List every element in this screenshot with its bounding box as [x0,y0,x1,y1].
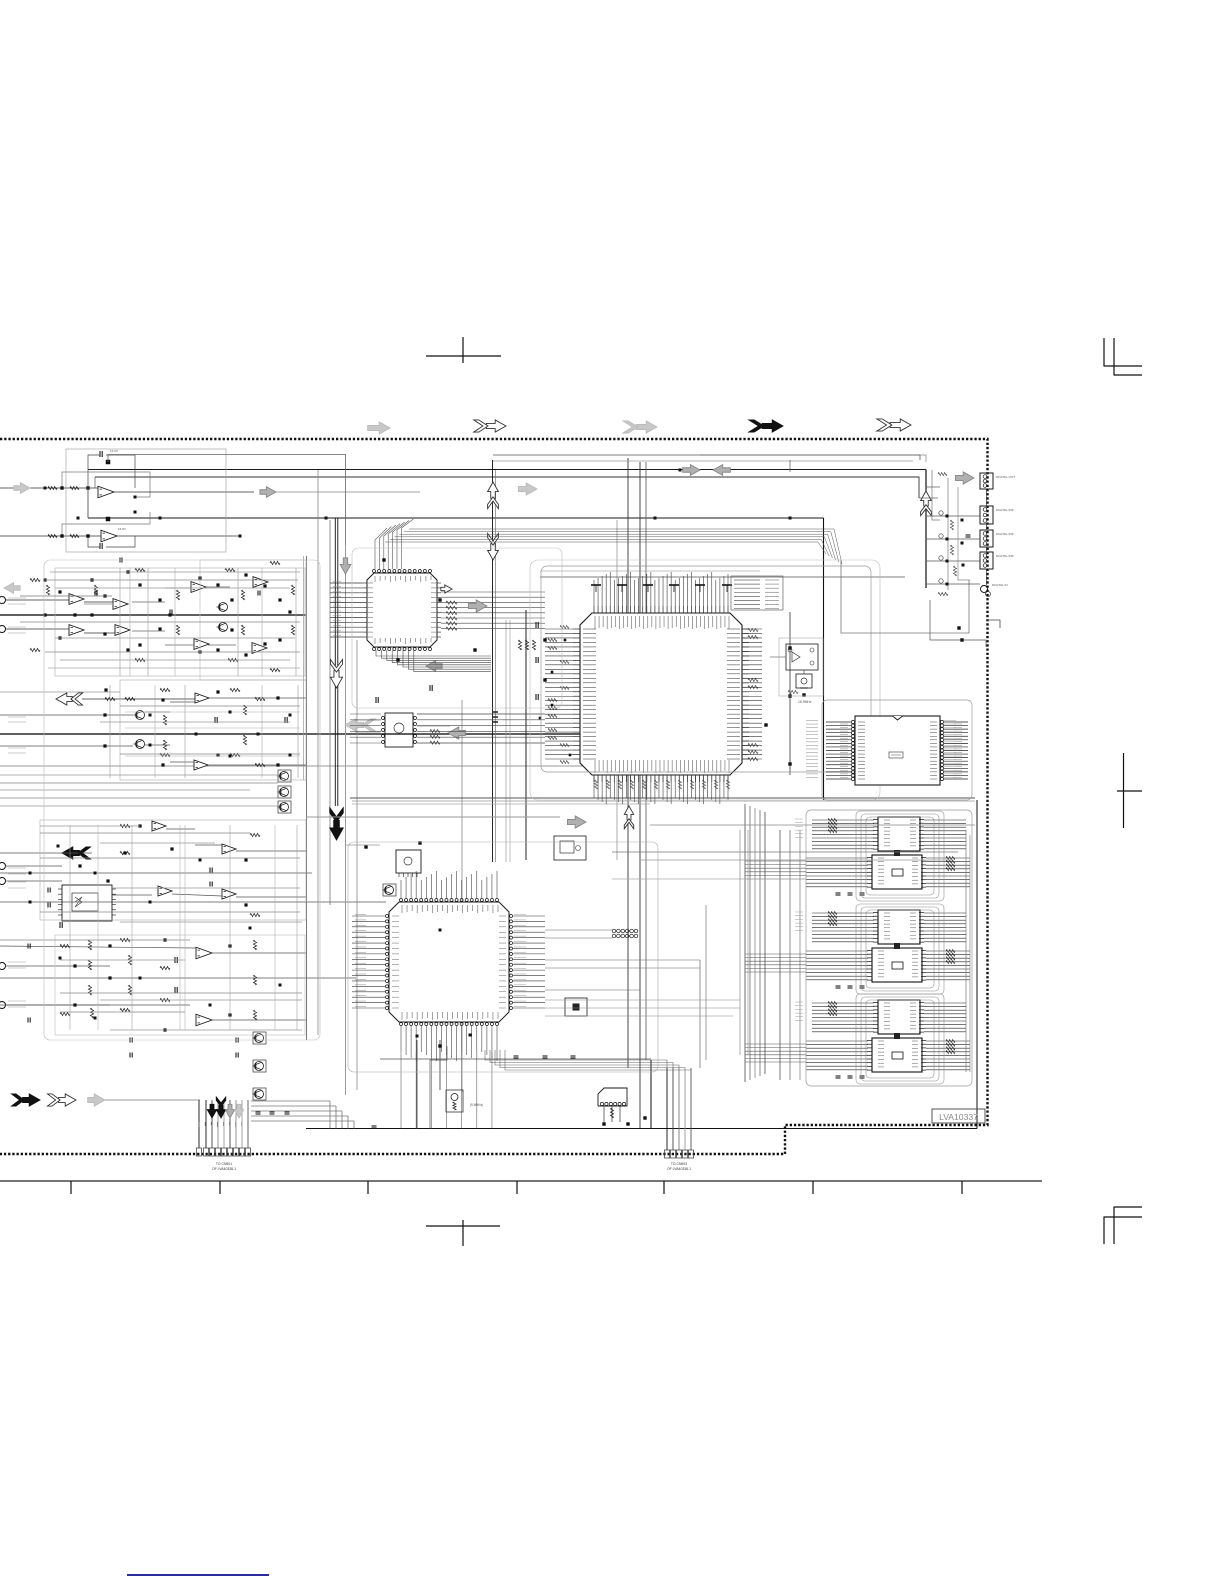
wire bus y798 lower [350,798,975,804]
label 16.9MHz [798,700,812,704]
frame block C [120,680,306,780]
label CN901 [212,1162,236,1171]
wires QFP1 right fan to main IC [441,592,545,628]
frame main IC section [541,566,871,772]
arrow white small E [441,585,452,593]
wire vertical x977 [976,800,978,1129]
op-amp IC202 [69,625,84,636]
frame block A [66,449,226,552]
jack J505 DIGITAL IN [981,586,991,597]
net label dashes [333,582,956,1021]
wires main QFP right fan [742,629,762,759]
resistors main QFP right [748,628,758,760]
IC main QFP right pin row [727,629,749,759]
junctions U903 [602,1116,646,1125]
wire long feedback y518 [88,517,824,519]
wires PLL left fan [826,722,851,779]
frame block D2 [55,935,305,1035]
wire bus QFP1 to mainIC top [385,529,842,564]
arrow outline left E4 [345,719,375,731]
wire vertical x926 digital section [925,470,927,589]
transistor Q302 [134,740,145,749]
wire bus y470 to digital-out [88,469,926,471]
op-amp IC302 [194,760,208,770]
svg-text:OF LVA40338-1: OF LVA40338-1 [212,1167,236,1171]
wires block B [20,587,236,645]
svg-text:15.8V: 15.8V [118,527,126,531]
wire bus y817 gray [306,816,560,818]
svg-text:16.9MHz: 16.9MHz [798,700,812,704]
frame left analog outer [44,560,320,1040]
wire loops DIP A [856,811,944,901]
frame QFP2 outer [348,842,658,1072]
signal arrow A5 (white double) [877,419,911,431]
wire top bus right corner [493,455,920,461]
wire mesh block C [0,685,300,806]
component U706 [565,998,587,1016]
label DIGITAL INP3 [996,554,1014,558]
crystal X401 [446,1090,483,1112]
label CN903 [667,1162,691,1171]
connector CN501 DIGITAL OUT [980,473,993,489]
wire vertical x640 [639,462,641,1129]
signal arrow A3 (gray double) [623,421,657,433]
wire blockA to y518 [87,488,89,518]
resistor R104 [70,534,79,537]
vertical pair x700 down [700,905,706,1068]
op-amp IC403 [158,886,172,896]
arrow gray left E3 [448,727,465,739]
fold ruler with ticks [0,1181,1042,1194]
arrow white bottom trio 2 [48,1094,77,1106]
svg-text:DIGITAL OUT: DIGITAL OUT [996,475,1015,479]
wire input pair block A [0,488,101,536]
wire vertical right bus1 [779,830,781,1080]
IC main QFP top pin row [594,606,729,629]
connector CN504 [980,552,993,569]
op-amp IC204 [115,625,130,636]
IC QFP2 right pins [499,915,513,1010]
input jack J401 [0,863,6,870]
resistors QFP1 right [446,601,536,650]
resistors block C [105,688,265,766]
arrow gray left on bus x713 [713,465,730,476]
wire loops DIP C [856,994,944,1084]
arrow gray on bus x674 [683,465,700,476]
wires crystal G [770,657,806,697]
op-amp IC206 [194,639,209,650]
wire vertical x330 [329,520,331,905]
frame DIP trio outer [806,810,972,1086]
wire vcc right x790 [789,612,791,775]
junction caps block D [73,824,247,1031]
IC QFP1 right pins [431,583,441,637]
trapezoid component U903 [598,1088,627,1106]
transistor pack Q305 [278,801,292,813]
arrow outline up I [921,491,932,516]
junction caps block C [103,688,279,766]
wire y497 segment [918,497,920,499]
arrow black bottom trio 1 [12,1094,41,1106]
blue underline bottom-left [127,1574,269,1576]
wires QFP1 bottom fan right [376,650,491,671]
transistor pack Q303 [278,770,292,782]
arrow gray to CN501 [955,472,974,484]
frame crystal G [779,638,823,696]
op-amp IC208 [252,643,267,654]
IC main QFP bottom pin row [594,760,729,782]
connector CN903 [664,1150,693,1158]
label DIGITAL IN [992,583,1008,587]
wire corner top-right bus [925,469,927,472]
wire down from CN501 [986,489,988,585]
IC PLL body [855,716,940,785]
tiny labels left edge [8,598,26,1007]
frame PLL [822,700,972,800]
cap QFP1 area [376,685,432,703]
label DIGITAL INP2 [996,532,1014,536]
transistor pack Q401 [253,1032,267,1044]
wires QFP2 bottom fan [401,1026,497,1129]
wire bus into connectors [700,455,926,462]
registration crosshair top [426,337,501,363]
cap trio below QFP2 [514,1056,576,1058]
labels PLL right [954,724,962,777]
wire long y615 analog [0,614,306,616]
transistor pack Q304 [278,786,292,798]
IC PLL right pins [930,720,944,780]
crystal circuit X301 [786,644,818,670]
pin numbers CN901 [199,1122,248,1127]
wire top rail main IC [540,571,905,577]
wire long y978 [0,977,356,979]
wires block C [0,698,306,765]
op-amp IC101a [98,486,114,498]
connector CN503 [980,530,993,547]
wires QFP2 right fan [513,916,545,1008]
wire vertical right bus3 [799,830,801,1080]
test points digital [939,511,949,586]
op-amp IC207 [253,577,268,588]
capacitor C102 [100,543,102,549]
IC QFP1 left pins [363,583,373,637]
IC group right C [806,1000,970,1078]
IC QFP1 bottom pins [373,638,432,651]
resistor row below main IC [594,780,729,789]
wire bus y852 [612,851,958,853]
input jack J202 [0,626,20,633]
op-amp IC404 [222,889,236,899]
wire vertical x823 down to PLL [823,518,825,800]
transistor Q301 [134,711,145,720]
arrow gray out-A2 [518,483,537,495]
input jack J201 [0,597,20,604]
registration crosshair bottom [426,1220,500,1246]
resistor R102 [70,486,79,489]
signal arrow A2 (white chevron) [474,420,506,432]
labels block A [110,449,126,531]
arrow gray left E2 [426,661,442,672]
arrow gray down CN901 d [234,1104,243,1118]
wires U903 [604,1106,620,1122]
wire out A2 [117,535,242,538]
wire hook right [986,620,1000,628]
registration crosshair mid-right [1117,753,1142,828]
resistors block B [30,561,295,671]
LVA10337 box [932,1109,985,1123]
svg-text:OF LVA40338-1: OF LVA40338-1 [667,1167,691,1171]
junctions QFP2 [364,841,471,1036]
op-amp IC401 [152,821,166,831]
op-amp IC301 [195,693,209,703]
wires main QFP bottom fan [594,775,728,804]
wire long y1129 [306,1128,977,1130]
input jack J402 [0,878,6,885]
IC QFP1 top pins [373,570,432,583]
transistor pack Q402 [253,1060,267,1072]
dotted page border [0,439,988,1154]
wires right of QFP2 horizontals [545,930,700,990]
wire horizontals group links [745,861,806,1062]
arrow white up x493 [488,482,499,509]
wires main QFP left fan [545,629,573,759]
wire vertical x646 [645,462,647,1060]
input jack J403 [0,963,6,970]
filter IC U401 [58,885,116,921]
frame main IC outer [530,560,880,800]
wires DIP8 bus [350,712,545,744]
arrow gray down CN901 c [225,1104,234,1118]
extra junctions block D [28,845,282,1058]
wire vertical x318 [317,470,319,1035]
caps on bus bottom [256,1112,377,1128]
wire bus y879 [612,878,806,880]
arrow black double down x336 [330,808,344,840]
caps block D [60,922,177,993]
wires block D [0,829,306,1020]
junction caps block B [43,570,291,656]
IC QFP2 bottom pins [400,1012,499,1026]
svg-text:DIGITAL IN: DIGITAL IN [992,583,1008,587]
wire bundle QFP2-to-right [545,1000,740,1016]
pin header QFP2 right [612,929,638,938]
IC PLL left pins [851,720,865,780]
arrow gray input-A [14,483,30,494]
label DIGITAL INP1 [996,508,1014,512]
resistor R101 [48,486,57,489]
wires digital section [919,470,980,590]
arrow black left D [62,847,91,859]
wire vertical x617 [616,520,618,860]
signal arrow A1 (light gray) [368,422,390,434]
op-amp IC201 [69,594,84,605]
wire vertical x345 gray bus [345,545,347,1095]
wire vertical x526 [525,610,527,860]
feedback loop A upper [62,455,150,497]
arrow gray input-B [4,583,20,594]
frame block B2 [200,560,306,680]
wires dual into right side [300,470,926,472]
junction dots main left [539,639,572,757]
svg-text:16.9V: 16.9V [110,449,118,453]
extra wires block C [125,711,300,758]
wire bundle CN903 [667,1068,691,1150]
IC group right B [806,910,970,988]
wire long y734 [0,733,651,735]
IC PLL centre label [889,752,903,758]
wire from blockA to x336 [87,487,89,518]
arrow gray out-A [260,487,276,498]
junction row below QFP2 [416,1035,442,1048]
IC group right A [806,817,970,895]
svg-text:TO CN901: TO CN901 [216,1162,232,1166]
arrow black down CN901 a [207,1104,216,1118]
frame block D1 [40,820,306,920]
IC QFP2 left pins [386,915,400,1010]
resistors digital [938,472,957,595]
connector CN502 [980,506,993,524]
cap block C [215,717,287,723]
wire mesh block B [20,568,300,676]
wires crystal x401 [417,1040,447,1129]
wire upper loop x790-925 [789,460,791,472]
caps digital [961,519,971,567]
resistors block D [60,824,260,1020]
label DIGITAL OUT [996,475,1015,479]
transistor Q201 [217,603,228,612]
junction squares block A [60,486,136,537]
wire long y902 [0,901,386,903]
crystal X301 body [796,674,812,688]
wires CN901 fan right [251,1101,354,1129]
wire bundle CN901 [199,1100,248,1148]
resistor R103 [48,534,57,537]
wire mesh block D [0,825,302,1030]
wire vertical x306 enclosure [304,556,307,1040]
registration mark top-right [1104,338,1142,376]
resistors main QFP left [548,625,569,763]
wire vertical x651 [650,1060,652,1129]
IC QFP1 body [367,573,437,647]
frame top mid [352,548,562,708]
wires QFP2 to CN903 [485,1050,691,1070]
wire bus y825 [650,824,975,826]
wires DIP8 [355,720,450,732]
junction squares right of main IC [764,646,791,765]
wires QFP2 top fan [401,871,497,898]
capacitor C101 [100,451,102,457]
wire out A1 [114,491,420,493]
op-amp IC203 [113,599,128,610]
svg-text:DIGITAL INP: DIGITAL INP [996,554,1014,558]
frame block B1 [55,568,305,676]
wire vertical x357 [356,640,358,1090]
IC main QFP body [580,613,742,775]
input jack J404 [0,1002,6,1009]
transistor pack Q403 [253,1088,267,1100]
caps block B [95,558,260,615]
diamond marks y488 [44,487,328,520]
wire vertical right bus2 [789,830,791,1080]
wire vertical x506 pair [506,620,510,862]
wire gray bus y1100 [105,1099,200,1101]
wire vertical x462 [461,700,463,1092]
feedback loop A lower [62,512,150,547]
wire rounded top-left of mainIC [336,517,338,519]
arrow black down CN901 b [216,1097,225,1118]
vertical x740 region [740,830,748,1055]
opto IC U302 DIP8 [382,713,417,747]
arrow white left C [56,693,83,705]
wire box edge right section [841,560,969,633]
wire long y873 [0,872,312,874]
decoupling caps top row [591,585,732,592]
arrow gray QFP2 [567,816,586,828]
wires PLL right fan [944,722,968,779]
wire bus mid y845 [346,844,381,846]
op-amp IC405 [196,947,212,959]
wire bottom digital [930,600,986,647]
wire blockA y470 link [94,477,96,488]
wires main QFP top bus [594,572,728,606]
op-amp IC406 [196,1014,212,1026]
junctions QFP1 [382,558,476,661]
wires QFP1 left fan [330,583,363,637]
arrow white double-down x336 [330,660,342,689]
wire vertical x628 [627,458,629,1068]
transistor Q701 [383,884,397,896]
svg-text:DIGITAL INP: DIGITAL INP [996,532,1014,536]
arrow gray E [468,600,487,612]
op-amp IC205 [191,582,206,593]
transistor Q202 [217,623,228,632]
op-amp IC101b [101,530,117,542]
junction sq y470 [654,469,792,520]
IC QFP2 top pins [400,899,499,914]
arrow white up QFP2 [624,806,633,829]
svg-text:DIGITAL INP: DIGITAL INP [996,508,1014,512]
svg-text:LVA10337: LVA10337 [939,1112,978,1122]
wire vertical bundle left of DIP trio [745,804,765,1082]
wire bus y477 [95,477,919,498]
arrow white down x493 [488,533,499,560]
arrow gray down x345 [340,558,351,574]
connector CN901 [196,1148,250,1156]
wires QFP1 top bus [375,519,413,569]
wire vertical right bus4 [966,830,970,1072]
wire rail y454 [108,455,346,546]
wire loops DIP B [856,904,944,994]
registration mark bottom-right [1104,1207,1142,1245]
wire long y766 [0,765,648,767]
wire vertical x336 bus [335,518,338,806]
op-amp IC402 [222,844,236,854]
wires QFP2 left fan [352,916,385,1008]
IC main QFP left pin row [573,629,596,759]
labels PLL left [840,724,848,777]
wire y1059 [380,1058,651,1060]
signal arrow A4 (black double) [749,420,783,432]
IC QFP2 body [389,902,509,1022]
crystal circuit right of QFP2 [554,836,586,860]
svg-text:TO CN903: TO CN903 [671,1162,687,1166]
arrow gray bottom trio 3 [88,1094,105,1106]
resistor value table [731,576,783,610]
wire vertical x493 pair [493,460,496,862]
caps main QFP left [536,622,547,700]
wire long y1005 [0,1004,190,1006]
wire bus y860 [640,859,952,861]
